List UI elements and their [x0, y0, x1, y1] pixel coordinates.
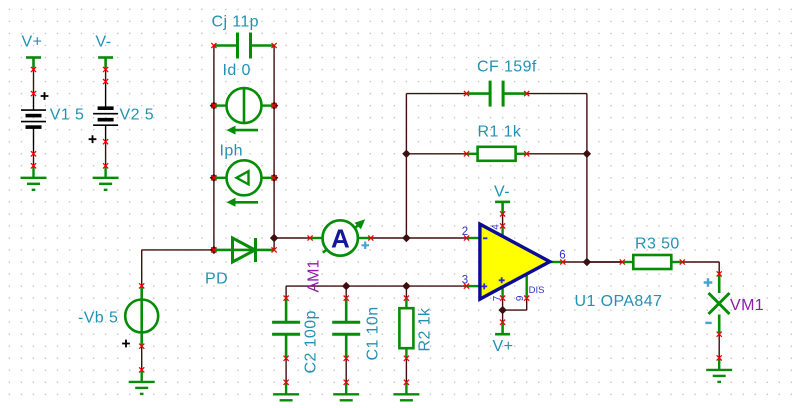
svg-text:PD: PD	[205, 271, 228, 288]
wire down to -Vb	[141, 250, 143, 286]
power terminal V+ below op-amp	[493, 322, 514, 355]
wire right rail Cj/Id/Iph down	[273, 46, 275, 239]
op-amp U1 input polarity marks	[481, 238, 505, 289]
wire CF right to rail	[527, 93, 587, 95]
photodiode PD	[205, 238, 274, 288]
wire VM1 to ground	[718, 334, 720, 358]
junction pin7/pin9 node	[498, 306, 506, 314]
junction PD anode node	[210, 246, 218, 254]
wire R1 right to rail	[527, 153, 587, 155]
wire R2 to ground	[405, 358, 407, 382]
ground below VM1	[706, 358, 732, 382]
svg-text:Cj 11p: Cj 11p	[212, 14, 259, 31]
junction Id right	[270, 101, 278, 109]
svg-text:Id 0: Id 0	[223, 62, 251, 79]
wire left rail Cj/Id/Iph to PD anode	[213, 46, 215, 250]
svg-text:V1 5: V1 5	[50, 107, 85, 124]
wire C1 to ground	[345, 358, 347, 382]
svg-text:R1 1k: R1 1k	[478, 124, 522, 141]
svg-text:Iph: Iph	[220, 143, 243, 160]
ammeter AM1	[310, 219, 370, 255]
wire V- terminal to V2	[105, 70, 107, 82]
wire to CF left	[406, 93, 466, 95]
junction R2 top node	[402, 282, 410, 290]
junction output node	[583, 258, 591, 266]
battery V1	[21, 92, 84, 154]
svg-text:4: 4	[490, 224, 501, 230]
label AM1	[306, 260, 323, 293]
wire V- terminal to pin4	[502, 214, 504, 226]
op-amp U1 pin leads	[467, 226, 563, 298]
ground below V1	[21, 166, 47, 190]
wire output rail down	[586, 94, 588, 262]
svg-text:DIS: DIS	[529, 285, 545, 296]
ground below -Vb	[129, 370, 155, 394]
junction Iph left	[210, 174, 218, 182]
voltage source -Vb 5	[78, 286, 158, 348]
svg-text:V+: V+	[493, 338, 514, 355]
svg-text:R3 50: R3 50	[635, 236, 680, 253]
pin connection crosses	[31, 43, 722, 385]
wire non-inverting row	[286, 285, 466, 287]
capacitor C1 10n	[332, 298, 381, 360]
wire output junction row	[587, 261, 622, 263]
power terminal V- top-left	[96, 34, 114, 70]
svg-text:V2 5: V2 5	[120, 107, 155, 124]
wire R2 riser	[405, 286, 407, 298]
current source Id 0	[214, 62, 274, 135]
op-amp U1 triangle body	[480, 224, 550, 299]
wire node to ammeter +	[274, 237, 310, 239]
ground below V2	[93, 166, 119, 190]
wire C2 to ground	[285, 358, 287, 382]
power terminal V+ top-left	[22, 34, 43, 70]
junction R1 left node	[402, 150, 410, 158]
voltmeter VM1	[704, 274, 764, 334]
wire pin7 to V+ terminal	[502, 298, 504, 322]
junction PD cathode node	[270, 234, 278, 242]
junction Id left	[210, 101, 218, 109]
capacitor Cj 11p	[212, 14, 275, 59]
wire V1 to ground	[33, 154, 35, 166]
svg-text:CF 159f: CF 159f	[477, 59, 537, 76]
svg-text:R2 1k: R2 1k	[417, 307, 434, 351]
ground below C1	[333, 382, 359, 406]
battery V2	[89, 82, 154, 144]
wire V+ terminal to V1	[33, 70, 35, 94]
capacitor CF 159f	[467, 59, 537, 107]
current source Iph	[214, 143, 274, 207]
wire V2 to ground	[105, 142, 107, 166]
wire C2 riser	[285, 286, 287, 298]
svg-text:V+: V+	[22, 34, 43, 51]
wire pin9 to pin7 node	[503, 309, 527, 311]
svg-text:A: A	[331, 224, 350, 254]
junction C1 top node	[342, 282, 350, 290]
wire pin6 to R3	[563, 261, 623, 263]
wire right rail to PD cathode	[273, 238, 275, 250]
wire -Vb to ground	[141, 346, 143, 370]
wire to R1 left	[406, 153, 466, 155]
capacitor C2 100p	[272, 298, 319, 373]
junction inverting input node	[402, 234, 410, 242]
svg-text:C2 100p: C2 100p	[303, 310, 320, 373]
wire C1 riser	[345, 286, 347, 298]
junction Iph right	[270, 174, 278, 182]
wire inverting rail up	[405, 94, 407, 238]
resistor R2 1k	[399, 298, 433, 358]
ground below C2	[273, 382, 299, 406]
wire PD anode row	[142, 249, 214, 251]
power terminal V- above op-amp	[494, 184, 510, 214]
wire corner down to VM1	[718, 262, 720, 274]
svg-text:U1 OPA847: U1 OPA847	[575, 293, 663, 310]
wire pin9 down	[526, 298, 528, 310]
svg-text:V-: V-	[494, 184, 510, 201]
ground below R2	[393, 382, 419, 406]
wire R3 to VM1 corner	[682, 261, 719, 263]
wire ammeter to inverting node	[370, 237, 466, 239]
svg-text:AM1: AM1	[306, 260, 323, 293]
svg-text:C1 10n: C1 10n	[365, 307, 382, 361]
svg-text:-Vb 5: -Vb 5	[78, 310, 118, 327]
junction feedback right node	[583, 150, 591, 158]
svg-text:VM1: VM1	[730, 297, 764, 314]
resistor R1 1k	[467, 124, 527, 161]
resistor R3 50	[622, 236, 682, 270]
svg-text:V-: V-	[96, 34, 112, 51]
